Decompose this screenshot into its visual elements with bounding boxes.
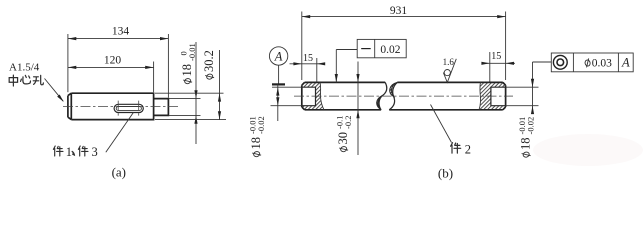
svg-text:-0.02: -0.02 bbox=[256, 116, 266, 134]
svg-text:2: 2 bbox=[465, 143, 471, 157]
svg-text:(b): (b) bbox=[438, 166, 453, 181]
svg-text:18: 18 bbox=[249, 137, 263, 150]
dimension phi18 0/-0.01 (a) bbox=[169, 42, 201, 144]
wavy section boundary left bbox=[320, 82, 324, 109]
svg-text:1: 1 bbox=[66, 145, 72, 159]
faint watermark remnant bbox=[533, 134, 643, 166]
dimension phi18 left journal bbox=[247, 84, 301, 157]
break line left with crescent bbox=[377, 82, 387, 109]
shaft right step journal (a) bbox=[154, 99, 169, 116]
inner ground-diameter rectangle right bbox=[491, 87, 506, 106]
shaft (b) outline left segment bbox=[302, 82, 385, 109]
dimension phi30.2 (a) bbox=[155, 50, 226, 120]
dimension 15 left bbox=[290, 53, 326, 82]
svg-text:931: 931 bbox=[390, 5, 408, 17]
svg-text:0.03: 0.03 bbox=[592, 57, 612, 69]
svg-text:18: 18 bbox=[519, 138, 533, 151]
dimension 931 bbox=[302, 5, 506, 80]
leader for center hole bbox=[45, 79, 66, 104]
svg-text:-0.2: -0.2 bbox=[343, 116, 353, 129]
svg-text:A: A bbox=[274, 50, 283, 64]
datum A symbol bbox=[269, 47, 287, 85]
中心孔 characters (drawn strokes) bbox=[9, 75, 43, 86]
svg-text:0.02: 0.02 bbox=[380, 44, 400, 56]
right grinding zone hatch bbox=[479, 82, 506, 109]
svg-text:134: 134 bbox=[112, 25, 130, 37]
svg-text:15: 15 bbox=[491, 51, 501, 62]
leader and label 件2 bbox=[431, 105, 452, 143]
keyway arc center mark left bbox=[117, 101, 119, 117]
dimension 15 right bbox=[481, 51, 515, 82]
shaft (b) outline right segment bbox=[389, 82, 505, 109]
svg-text:A: A bbox=[621, 56, 630, 70]
concentricity tolerance frame bbox=[533, 53, 634, 72]
inner ground-diameter rectangle left bbox=[302, 87, 316, 106]
wavy section boundary right bbox=[479, 82, 481, 109]
centerline (b) bbox=[294, 95, 513, 97]
dimension phi30 -0.1/-0.2 bbox=[334, 62, 359, 156]
svg-text:A1.5/4: A1.5/4 bbox=[9, 61, 40, 73]
surface roughness symbol 1.6 bbox=[443, 57, 457, 82]
leader and label 件1、件3 bbox=[106, 112, 134, 152]
dimension phi18 right journal bbox=[506, 62, 539, 158]
svg-text:120: 120 bbox=[104, 55, 122, 67]
svg-text:-0.01: -0.01 bbox=[187, 43, 197, 61]
keyway inner bottom outline bbox=[116, 107, 141, 111]
left grinding zone hatch bbox=[302, 82, 324, 109]
dimension 134 bbox=[68, 25, 168, 97]
keyway outer outline bbox=[114, 104, 143, 112]
svg-text:(a): (a) bbox=[112, 165, 126, 180]
straightness tolerance frame - 0.02 bbox=[335, 39, 407, 82]
leader of concentricity frame bbox=[533, 61, 552, 63]
dimension 120 bbox=[68, 55, 154, 93]
keyway arc center mark right bbox=[138, 101, 140, 117]
centerline (a) bbox=[63, 106, 180, 108]
svg-text:18: 18 bbox=[180, 64, 194, 77]
svg-text:-0.02: -0.02 bbox=[526, 117, 536, 135]
shaft main body (a) bbox=[68, 93, 154, 119]
break line right with crescent bbox=[389, 82, 397, 109]
svg-text:3: 3 bbox=[92, 145, 98, 159]
svg-text:30: 30 bbox=[336, 132, 350, 145]
svg-text:30.2: 30.2 bbox=[202, 50, 216, 72]
svg-text:1.6: 1.6 bbox=[443, 57, 455, 67]
svg-text:15: 15 bbox=[303, 53, 313, 64]
